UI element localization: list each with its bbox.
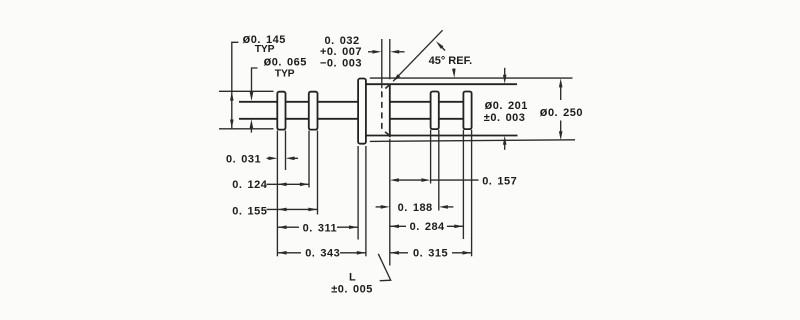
svg-text:0. 157: 0. 157 — [482, 175, 517, 187]
svg-text:0. 032: 0. 032 — [325, 35, 360, 47]
ferrule right edge — [389, 84, 391, 137]
extension line disc4 right — [471, 130, 473, 256]
disc 3 — [431, 92, 439, 130]
45 REF leader to diagonal — [440, 45, 445, 51]
svg-text:0. 188: 0. 188 — [398, 202, 433, 214]
dim ø0.065 lower arrow — [250, 126, 252, 133]
extension line disc4 left — [462, 130, 464, 239]
svg-text:0. 155: 0. 155 — [232, 206, 267, 218]
disc 2 — [309, 92, 318, 130]
svg-text:TYP: TYP — [255, 44, 275, 55]
svg-text:ø0. 250: ø0. 250 — [540, 105, 583, 119]
extension line disc3 right — [438, 130, 440, 211]
body ferrule ø0.201 outline — [366, 84, 518, 135]
45 REF leader to top line — [453, 68, 455, 72]
dim ø0.145 vertical dimension line — [231, 91, 233, 129]
svg-text:0. 315: 0. 315 — [413, 248, 448, 260]
disc 1 — [277, 92, 285, 130]
svg-text:0. 343: 0. 343 — [305, 248, 340, 260]
svg-text:0. 031: 0. 031 — [226, 153, 261, 165]
svg-text:±0. 003: ±0. 003 — [484, 112, 526, 124]
extension line disc1 right — [285, 131, 287, 170]
svg-text:TYP: TYP — [275, 68, 295, 79]
svg-text:45° REF.: 45° REF. — [429, 55, 473, 67]
svg-text:+0. 007: +0. 007 — [320, 46, 362, 58]
svg-text:0. 284: 0. 284 — [410, 221, 445, 233]
ø0.250 extension line top — [370, 77, 573, 79]
svg-text:L: L — [349, 272, 356, 284]
extension line disc2 right — [317, 131, 319, 215]
flange ø0.250 — [358, 79, 366, 144]
dim L leader — [378, 254, 390, 281]
disc 4 — [463, 92, 471, 130]
dim ø0.145 leader — [232, 42, 239, 91]
extension line ferrule right — [389, 139, 391, 266]
extension line disc2 left — [308, 131, 310, 188]
extension line disc1 left — [276, 131, 278, 257]
dim ø0.145 extension lines — [219, 90, 274, 92]
extension line flange left — [357, 146, 359, 240]
dim ø0.065 leader — [252, 68, 258, 93]
dim 0.032 extension lines — [382, 39, 390, 88]
45 deg chamfer reference line — [393, 30, 442, 81]
wire shaft left segment — [239, 102, 358, 119]
hidden chamfer dashed profile — [382, 84, 390, 135]
dim 0.032 arrows — [368, 51, 375, 53]
dim ø0.201 arrows — [504, 68, 506, 76]
svg-text:0. 124: 0. 124 — [232, 179, 267, 191]
svg-text:−0. 003: −0. 003 — [320, 58, 362, 70]
svg-text:ø0. 065: ø0. 065 — [264, 55, 307, 69]
svg-text:±0. 005: ±0. 005 — [331, 284, 373, 296]
dim ø0.250 dimension line — [560, 87, 562, 101]
svg-text:0. 311: 0. 311 — [303, 222, 337, 234]
svg-text:ø0. 201: ø0. 201 — [485, 98, 528, 112]
ø0.250 extension line bottom — [370, 140, 575, 142]
wire shaft right segment — [390, 102, 464, 119]
extension line flange right — [365, 146, 367, 256]
extension line disc3 left — [430, 130, 432, 184]
